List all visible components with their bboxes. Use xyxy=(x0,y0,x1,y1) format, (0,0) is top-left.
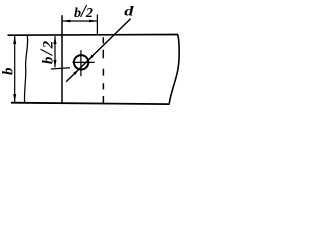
arrow b/2 left bottom xyxy=(54,60,57,68)
dimension b/2 top line xyxy=(62,20,97,22)
strip top edge xyxy=(8,34,179,37)
arrow d lower-left xyxy=(73,70,78,75)
hole mid extension line xyxy=(51,68,70,69)
strip left break line xyxy=(24,36,27,103)
arrow b/2 top right xyxy=(89,20,97,23)
hole horizontal centerline xyxy=(72,61,94,63)
arrow b/2 left top xyxy=(54,36,57,44)
extension line right xyxy=(96,15,98,36)
hole vertical centerline xyxy=(80,50,82,76)
arrow b top xyxy=(13,36,16,44)
vertical line through strip (rivet row) xyxy=(61,15,63,103)
leader line d xyxy=(66,19,131,82)
arrow d upper-right xyxy=(88,55,93,60)
hole circle xyxy=(74,55,88,69)
arrow b bottom xyxy=(13,94,16,102)
dimension b line xyxy=(14,36,16,102)
arrow b/2 top left xyxy=(62,20,70,23)
dimension b/2 left line xyxy=(54,36,56,67)
strip bottom edge xyxy=(11,103,170,104)
hidden plate edge dashed line xyxy=(102,37,104,103)
svg-text:b: b xyxy=(1,68,17,75)
svg-text:d: d xyxy=(124,4,134,20)
strip right break edge xyxy=(169,35,179,104)
